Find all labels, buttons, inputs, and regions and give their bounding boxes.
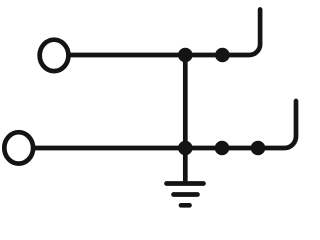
wire vertical link to ground: [183, 55, 188, 183]
node junction dot top B: [215, 48, 230, 63]
node junction dot bottom A: [178, 141, 193, 156]
ground (PE earth symbol): [167, 184, 204, 206]
wire top conductor with curve up to right plug: [69, 10, 260, 56]
node junction dot top A: [178, 48, 193, 63]
node junction dot bottom B: [215, 141, 230, 156]
terminal circle (bottom-left clamp point): [4, 132, 33, 163]
node junction dot bottom C: [251, 141, 266, 156]
wire bottom conductor with curve up to right plug: [33, 101, 296, 148]
terminal circle (top-left clamp point): [40, 40, 69, 71]
